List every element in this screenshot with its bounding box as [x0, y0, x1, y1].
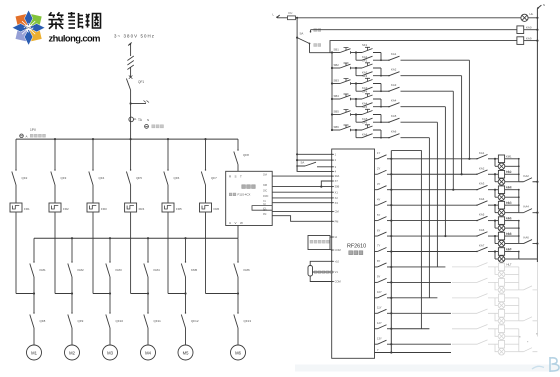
- node control junction: [296, 17, 298, 19]
- svg-text:QF4: QF4: [99, 176, 105, 180]
- node rail row 7: [390, 250, 392, 252]
- contactor coil KM7: [495, 251, 498, 253]
- node bus2 tap x=72: [71, 237, 73, 239]
- controller output stub Y2: [375, 173, 378, 175]
- wire row1 feed: [332, 52, 340, 54]
- group collector 1-2: [518, 159, 520, 182]
- wire to motor M4: [147, 328, 149, 345]
- incoming wire end tick: [128, 43, 132, 46]
- wire tap2 bus2 down: [71, 238, 73, 262]
- wire row5 to split: [351, 114, 356, 116]
- node rail exit 3-4: [536, 212, 538, 214]
- svg-text:10Y: 10Y: [377, 290, 382, 294]
- controller output stub Y4: [375, 204, 378, 206]
- wire feeder2 bus1 to breaker: [54, 139, 56, 170]
- svg-text:QF11: QF11: [154, 319, 162, 323]
- node row4 split: [355, 98, 357, 100]
- svg-text:FM: FM: [263, 214, 266, 216]
- wire feeder2 FR down: [54, 213, 56, 294]
- indicator lamp HL4: [495, 212, 498, 214]
- node bus1 tap x=168: [167, 138, 169, 140]
- wire row5 split drop: [355, 115, 357, 123]
- svg-text:COM: COM: [335, 248, 341, 252]
- contactor coil KM2: [495, 173, 498, 175]
- wire controller row1 to group: [391, 158, 477, 160]
- node group5 split: [494, 220, 496, 222]
- logo flower blue N petal: [24, 10, 32, 26]
- controller label 控制器: [349, 251, 353, 255]
- node row5 split: [355, 113, 357, 115]
- node collector y=228: [518, 227, 520, 229]
- relay coil KA8: [517, 37, 524, 45]
- svg-text:N: N: [543, 3, 545, 7]
- node row6 manual join: [444, 235, 446, 237]
- contactor coil KM5: [495, 220, 498, 222]
- breaker QF7: [201, 172, 205, 186]
- wire feeder5 breaker to FR: [167, 185, 169, 203]
- svg-text:X3: X3: [335, 201, 339, 205]
- svg-text:KA7: KA7: [479, 244, 485, 248]
- controller output stub Y1: [375, 158, 378, 160]
- svg-text:FR3: FR3: [101, 207, 107, 211]
- logo flower blue S petal: [24, 29, 32, 45]
- controller output stub Y9: [375, 281, 378, 283]
- controller left terminal X7: [332, 180, 334, 182]
- node group4 split: [494, 204, 496, 206]
- wire tap6 bus2 down: [237, 238, 239, 262]
- svg-text:QF10: QF10: [116, 319, 124, 323]
- svg-text:X1: X1: [335, 190, 339, 194]
- wire row6 rejoin: [380, 130, 382, 138]
- wire tap4 to join: [147, 277, 149, 294]
- wire row3 to split: [351, 83, 356, 85]
- svg-text:KM4: KM4: [506, 201, 512, 205]
- svg-text:KM6: KM6: [506, 232, 512, 236]
- node row3 manual join: [452, 189, 454, 191]
- svg-text:HL7: HL7: [507, 262, 512, 266]
- logo flower lavender SW petal: [16, 28, 29, 41]
- wire group5 lamp drop: [494, 221, 496, 229]
- wire fuse to junction: [296, 17, 298, 19]
- controller output stub Y10: [375, 297, 378, 299]
- wire row4 rejoin: [380, 99, 382, 107]
- wire KA7 to rail: [524, 29, 538, 31]
- controller bottom stub: [375, 352, 452, 354]
- wire row1 extension: [401, 59, 470, 61]
- selector SA blade: [297, 38, 309, 44]
- controller output rail: [390, 151, 392, 353]
- wire row5 to KA contact: [381, 121, 389, 123]
- svg-text:KM6: KM6: [244, 268, 251, 272]
- svg-text:SB4: SB4: [334, 94, 340, 98]
- svg-text:CM: CM: [335, 210, 339, 214]
- indicator lamp HL1: [495, 165, 498, 167]
- motor M3: [103, 345, 118, 360]
- svg-text:QF8: QF8: [243, 153, 249, 157]
- wire row3 split drop: [355, 84, 357, 92]
- node rail top y=40.6: [536, 40, 538, 42]
- wire to motor M2: [71, 328, 73, 345]
- svg-text:M2: M2: [69, 351, 75, 356]
- svg-text:11Y: 11Y: [377, 306, 382, 310]
- wire feeder4 breaker to FR: [130, 185, 132, 203]
- node row3 split: [355, 82, 357, 84]
- node collector y=159: [518, 158, 520, 160]
- svg-text:FM: FM: [335, 219, 339, 223]
- node rail row 3: [390, 189, 392, 191]
- wire feeder6 bus1 to breaker: [205, 139, 207, 170]
- wire feeder3 FR down: [92, 213, 94, 294]
- wire motor4 join down: [147, 294, 149, 314]
- fuse FU: [288, 16, 296, 20]
- svg-text:KA0: KA0: [526, 26, 532, 30]
- node collector y=197: [518, 196, 520, 198]
- svg-text:KA1: KA1: [479, 151, 485, 155]
- node bus1 tap x=130.6: [130, 138, 132, 140]
- wire tap1 to join: [33, 277, 35, 294]
- contactor KM2: [68, 264, 72, 278]
- node group6 split: [494, 235, 496, 237]
- bus 2 horizontal VFD output: [34, 237, 238, 239]
- node group1 split: [494, 158, 496, 160]
- svg-text:1PV: 1PV: [30, 128, 37, 132]
- wire VFD-controller y=176.1: [272, 175, 332, 177]
- wire row6 extension: [401, 137, 430, 139]
- logo flower blue E petal: [29, 24, 45, 32]
- contactor KM1: [30, 264, 34, 278]
- VFD label 变频器: [242, 185, 246, 189]
- node rail row 6: [390, 235, 392, 237]
- controller output stub Y12: [375, 328, 378, 330]
- control wire end tick L1: [277, 15, 280, 18]
- wire group2 lamp drop: [494, 174, 496, 182]
- controller left terminal CM: [332, 211, 334, 213]
- svg-text:QF1: QF1: [138, 80, 144, 84]
- svg-text:FR1: FR1: [24, 207, 30, 211]
- controller output stub Y13: [375, 343, 378, 345]
- svg-text:QF2: QF2: [22, 176, 28, 180]
- svg-text:COM: COM: [335, 280, 341, 284]
- svg-text:KA9: KA9: [526, 37, 532, 41]
- svg-text:U: U: [229, 221, 231, 225]
- svg-text:SB3: SB3: [334, 78, 340, 82]
- svg-text:SA: SA: [301, 160, 305, 164]
- svg-text:+10: +10: [335, 259, 340, 263]
- wire tap5 bus2 down: [185, 238, 187, 262]
- wire to motor M5: [185, 328, 187, 345]
- node row1 split: [355, 51, 357, 53]
- wire row6 to split: [351, 129, 356, 131]
- svg-text:FU: FU: [289, 11, 293, 15]
- wire tap4 bus2 down: [147, 238, 149, 262]
- three-phase slash marks: [127, 56, 133, 70]
- wire QF1 to junction: [130, 90, 132, 139]
- svg-text:SF2: SF2: [362, 59, 368, 63]
- controller left terminal COM: [332, 281, 334, 283]
- wire feeder1 jog to motor column: [16, 293, 34, 295]
- node collector y=190: [518, 189, 520, 191]
- svg-text:SF5: SF5: [362, 105, 368, 109]
- wire sensor bottom: [310, 276, 332, 282]
- wire tap5 to join: [185, 277, 187, 294]
- wire 30B tap branch: [321, 181, 331, 187]
- svg-text:QF6: QF6: [174, 176, 180, 180]
- wire bus1 to QF8: [237, 139, 239, 150]
- svg-text:KM2: KM2: [506, 170, 512, 174]
- switch QF12: [181, 315, 185, 329]
- svg-text:30A: 30A: [263, 173, 268, 176]
- wire row6 split drop: [355, 130, 357, 138]
- node collector y=205: [518, 204, 520, 206]
- wire row4 to KA contact: [381, 106, 389, 108]
- svg-text:KA3: KA3: [391, 83, 397, 87]
- wire controller row10: [391, 297, 437, 299]
- indicator lamp HL6: [495, 243, 498, 245]
- contactor coil KM1: [495, 158, 498, 160]
- VFD box: [226, 171, 273, 225]
- contactor coil KM3: [495, 189, 498, 191]
- wire row2 to split: [351, 67, 356, 69]
- node bus2 tap x=110: [109, 237, 111, 239]
- wire group4 lamp drop: [494, 205, 496, 213]
- faint ghost traces rows 8-13: [452, 262, 537, 355]
- wire feeder6 FR down: [205, 213, 207, 294]
- svg-text:KA6: KA6: [391, 130, 397, 134]
- node feeder1 join: [33, 292, 35, 294]
- svg-text:3Y: 3Y: [377, 182, 380, 186]
- motor M6: [231, 345, 246, 360]
- svg-text:KA4: KA4: [391, 99, 397, 103]
- svg-text:T: T: [240, 175, 242, 179]
- svg-text:KA5: KA5: [479, 213, 485, 217]
- svg-text:M6: M6: [235, 351, 241, 356]
- svg-text:V: V: [235, 221, 237, 225]
- svg-text:SB6: SB6: [334, 125, 340, 129]
- wire row4 extension: [401, 106, 446, 108]
- wire row3 feed: [332, 83, 340, 85]
- meter tap stub: [131, 103, 146, 105]
- wire feeder1 FR down: [15, 213, 17, 294]
- wire incomer vertical upper: [130, 45, 132, 57]
- controller RF2610 box: [332, 149, 375, 358]
- svg-text:30C: 30C: [263, 190, 268, 192]
- wire row4 drop vertical: [444, 107, 446, 236]
- svg-text:KA6: KA6: [479, 228, 485, 232]
- contactor KM5: [181, 264, 185, 278]
- switch QF10: [106, 315, 110, 329]
- contactor coil KM4: [495, 204, 498, 206]
- svg-text:QF9: QF9: [78, 319, 84, 323]
- indicator lamp HL5: [495, 227, 498, 229]
- svg-text:8Y: 8Y: [377, 259, 380, 263]
- svg-text:2Y: 2Y: [377, 166, 380, 170]
- wire feeder4 bus1 to breaker: [130, 139, 132, 170]
- auto line y29.7: [311, 29, 517, 31]
- controller output stub Y7: [375, 251, 378, 253]
- node rail row 2: [390, 173, 392, 175]
- wire feeder6 breaker to FR: [205, 185, 207, 203]
- breaker QF6: [164, 172, 168, 186]
- wire controller row6 to group: [391, 235, 477, 237]
- svg-text:KA2: KA2: [391, 68, 397, 72]
- wire feeder2 jog to motor column: [55, 293, 72, 295]
- svg-text:QF8: QF8: [40, 319, 46, 323]
- node rail exit 1-2: [536, 181, 538, 183]
- svg-text:9Y: 9Y: [377, 275, 380, 279]
- node rail row 13: [390, 343, 392, 345]
- group collector 5-6: [518, 221, 520, 244]
- svg-text:KA2: KA2: [524, 174, 530, 178]
- thermal relay FR5: [162, 203, 174, 212]
- wire VFD stepped: [272, 216, 332, 222]
- wire controller row11 cut: [391, 312, 451, 314]
- wire group6 lamp drop: [494, 236, 496, 244]
- svg-text:SB1: SB1: [334, 47, 340, 51]
- breaker QF1: [126, 79, 130, 91]
- wire tap6 to join: [237, 277, 239, 294]
- controller output stub Y8: [375, 266, 378, 268]
- level sensor potentiometer: [308, 266, 313, 277]
- logo flower green NE petal: [29, 14, 42, 27]
- wire row2 to KA contact: [381, 75, 389, 77]
- wire row1 split drop: [355, 53, 357, 61]
- svg-text:SB5: SB5: [334, 109, 340, 113]
- svg-text:12Y: 12Y: [377, 321, 382, 325]
- contactor KM4: [144, 264, 148, 278]
- controller left terminal 4: [332, 170, 334, 172]
- svg-text:3~ 380V 50Hz: 3~ 380V 50Hz: [114, 34, 154, 39]
- wire row4 to split: [351, 98, 356, 100]
- thermal relay FR3: [87, 203, 99, 212]
- wire motor3 join down: [109, 294, 111, 314]
- thermal relay FR4: [125, 203, 137, 212]
- svg-text:SB2: SB2: [334, 63, 340, 67]
- wire signal box bottom: [330, 249, 332, 252]
- wire row3 rejoin: [380, 84, 382, 92]
- wire fuse branch y=154.3: [297, 153, 332, 155]
- svg-text:KM4: KM4: [154, 268, 161, 272]
- wire controller row2 to group: [391, 173, 477, 175]
- wire controller row9 cut: [391, 281, 451, 283]
- wire row1 to KA contact: [381, 59, 389, 61]
- logo flower white center swirl: [26, 26, 30, 30]
- controller left terminal X2: [332, 197, 334, 199]
- svg-text:KM1: KM1: [40, 268, 47, 272]
- svg-text:M4: M4: [145, 351, 151, 356]
- wire row1 to split: [351, 52, 356, 54]
- breaker QF4: [89, 172, 93, 186]
- svg-text:zhulong.com: zhulong.com: [49, 33, 101, 44]
- wire to motor M3: [109, 328, 111, 345]
- svg-text:6Y: 6Y: [377, 228, 380, 232]
- wire VFD output down to bus2: [237, 226, 239, 239]
- wire feeder3 bus1 to breaker: [92, 139, 94, 170]
- wire row2 extension: [401, 75, 462, 77]
- breaker QF3: [51, 172, 55, 186]
- svg-text:KM5: KM5: [506, 216, 512, 220]
- label sensor 水位变送器: [314, 271, 317, 274]
- node bus2 tap x=185.5: [184, 237, 186, 239]
- node row6 split: [355, 129, 357, 131]
- node group3 split: [494, 189, 496, 191]
- svg-text:N: N: [147, 118, 149, 122]
- svg-text:W: W: [240, 221, 243, 225]
- wire feeder6 jog to motor column: [206, 293, 239, 295]
- node rail row 5: [390, 220, 392, 222]
- logo flower orange NW petal: [16, 14, 29, 27]
- svg-text:QF7: QF7: [211, 176, 217, 180]
- wire group1 lamp drop: [494, 159, 496, 167]
- controller output stub Y3: [375, 189, 378, 191]
- wire control junction down: [296, 18, 298, 172]
- svg-text:KM7: KM7: [506, 247, 512, 251]
- node feeder2 join: [71, 292, 73, 294]
- wire controller row5 to group: [391, 220, 477, 222]
- logo text char 網: [86, 14, 101, 29]
- wire row2 feed: [332, 67, 340, 69]
- logo flower blue W petal: [12, 24, 28, 32]
- motor M2: [65, 345, 80, 360]
- controller left terminal +10: [332, 260, 334, 262]
- node feeder4 join: [147, 292, 149, 294]
- node SA common: [296, 37, 298, 39]
- wire VFD-controller y=197.9: [272, 197, 332, 199]
- wire QF8 to VFD: [237, 165, 239, 172]
- wire motor5 join down: [185, 294, 187, 314]
- controller left terminal X1: [332, 191, 334, 193]
- node bus1 tap x=205.5: [204, 138, 206, 140]
- controller left terminal COM: [332, 249, 334, 251]
- node group7 split: [494, 250, 496, 252]
- wire controller row8: [391, 266, 445, 268]
- wire feeder2 breaker to FR: [54, 185, 56, 203]
- wire group7 to rail: [519, 258, 538, 260]
- svg-text:SF6: SF6: [362, 121, 368, 125]
- svg-text:30A: 30A: [335, 174, 340, 178]
- wire feeder5 bus1 to breaker: [167, 139, 169, 170]
- svg-text:QF13: QF13: [244, 319, 252, 323]
- watermark blue glyph: [532, 357, 559, 372]
- node row2 manual join: [461, 173, 463, 175]
- wire controller row3 to group: [391, 189, 477, 191]
- wire row2 drop vertical: [461, 76, 463, 175]
- svg-text:A: A: [26, 135, 28, 139]
- svg-text:FR6: FR6: [214, 207, 220, 211]
- wire controller row12: [391, 328, 429, 330]
- controller output stub Y5: [375, 220, 378, 222]
- indicator lamp HL top: [521, 17, 538, 19]
- label auto 自动: [314, 43, 317, 46]
- svg-text:7Y: 7Y: [377, 244, 380, 248]
- controller left terminal FM: [332, 220, 334, 222]
- controller left terminal V1: [332, 271, 334, 273]
- svg-text:SF4: SF4: [362, 90, 368, 94]
- wire row5 drop vertical: [436, 122, 438, 267]
- wire row4 split drop: [355, 99, 357, 107]
- svg-text:KA4: KA4: [524, 205, 530, 209]
- wire to fuse FU: [277, 17, 287, 19]
- node rail row 10: [390, 297, 392, 299]
- wire VFD-controller y=202.7: [272, 202, 332, 204]
- wire to motor M6: [237, 328, 239, 345]
- contactor KM3: [106, 264, 110, 278]
- group 7 collector: [518, 252, 520, 260]
- node rail row 12: [390, 328, 392, 330]
- svg-text:SA: SA: [300, 32, 304, 36]
- wire VFD-controller y=186.6: [272, 186, 332, 188]
- wire motor2 join down: [71, 294, 73, 314]
- wire row4 feed: [332, 98, 340, 100]
